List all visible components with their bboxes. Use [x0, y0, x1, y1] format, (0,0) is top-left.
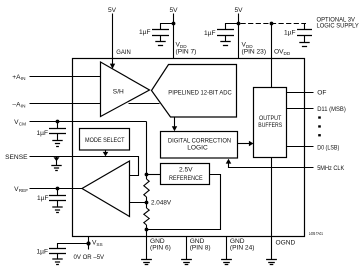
wire D11 output: [287, 108, 314, 110]
wire GND pin6 (resistor chain continues): [146, 237, 148, 260]
svg-text:5V: 5V: [234, 7, 243, 14]
label GND (PIN 8): [190, 238, 211, 251]
wire C2 to VDD23: [226, 24, 239, 30]
svg-text:1405 TA01: 1405 TA01: [309, 231, 324, 236]
wire resistor chain from VCM: [146, 122, 148, 180]
wire VDD pin7 supply: [173, 14, 175, 59]
main IC block outline: [73, 59, 305, 237]
block 2.5V REFERENCE: [161, 164, 210, 185]
label GAIN: [116, 49, 131, 56]
ground (C2): [220, 42, 230, 46]
svg-text:OF: OF: [317, 90, 326, 97]
label OPTIONAL 3V LOGIC SUPPLY: [317, 17, 360, 30]
node VSS junction: [86, 241, 90, 245]
svg-text:D0 (LSB): D0 (LSB): [317, 144, 339, 151]
wire VSS pin: [88, 237, 90, 250]
label VSS: [92, 239, 103, 246]
label GND (PIN 6): [150, 238, 171, 251]
node 2.048V tap: [145, 201, 149, 205]
svg-text:IN: IN: [21, 76, 26, 81]
svg-text:(PIN 6): (PIN 6): [150, 244, 171, 251]
svg-text:–A: –A: [12, 102, 21, 109]
svg-text:LOGIC SUPPLY: LOGIC SUPPLY: [317, 23, 360, 30]
svg-text:(PIN 24): (PIN 24): [230, 244, 255, 251]
label VREF: [14, 186, 28, 193]
label VDD (PIN 23): [242, 41, 267, 55]
svg-text:5MHz CLK: 5MHz CLK: [317, 165, 344, 172]
svg-text:(PIN 8): (PIN 8): [190, 244, 211, 251]
resistor R2: [144, 208, 149, 237]
node resistor top junction: [145, 173, 149, 177]
wire C6 to VSS: [58, 244, 89, 249]
label 5V (gain): [108, 7, 117, 14]
wire mode select to sense line with arrow: [103, 150, 109, 156]
ground (C1): [155, 42, 165, 46]
ground (C3): [299, 43, 309, 47]
wire SENSE input: [30, 157, 139, 176]
label +AIN: [12, 74, 25, 81]
svg-text:1µF: 1µF: [37, 130, 49, 137]
label VDD (PIN 7): [176, 41, 197, 55]
label OGND: [276, 239, 296, 246]
wire 5V gain supply: [110, 14, 115, 69]
label 1µF (C2): [204, 30, 216, 37]
label 1µF (C5): [37, 195, 49, 202]
ground (C6): [52, 259, 62, 265]
ground (C4): [52, 141, 62, 147]
wire reference left to resistor top: [147, 174, 161, 176]
wire dashed optional 3V supply: [241, 23, 307, 25]
label OVDD: [274, 49, 291, 56]
svg-text:+A: +A: [12, 74, 21, 81]
wire +AIN input: [30, 76, 101, 78]
svg-text:D11 (MSB): D11 (MSB): [317, 106, 346, 113]
capacitor C3 1µF optional: [297, 24, 312, 43]
node VCM-C4 junction: [56, 120, 60, 124]
svg-text:SENSE: SENSE: [5, 154, 28, 161]
svg-text:REF: REF: [19, 188, 29, 193]
ground (SENSE tie): [51, 157, 61, 171]
svg-text:LOGIC: LOGIC: [187, 144, 208, 151]
wire D0 output: [287, 146, 314, 148]
ground (GND pin24): [221, 260, 232, 265]
wire CLK input to correction logic: [226, 159, 314, 168]
label OF: [317, 90, 326, 97]
block DIGITAL CORRECTION LOGIC: [161, 132, 238, 159]
wire GND pin8: [186, 237, 188, 260]
label VCM: [14, 119, 26, 126]
wire OF output: [287, 92, 314, 94]
svg-text:S/H: S/H: [113, 88, 124, 95]
block PIPELINED 12-BIT ADC: [152, 65, 237, 118]
wire C1 to VDD7: [161, 24, 174, 30]
node resistor bottom junction: [145, 228, 149, 232]
capacitor C5 1µF: [49, 189, 66, 208]
label 0V OR -5V: [74, 254, 105, 261]
label GND (PIN 24): [230, 238, 255, 251]
svg-text:CM: CM: [19, 121, 26, 126]
node OVDD dashed junction: [270, 22, 274, 26]
wire ADC to correction logic with arrow: [172, 117, 177, 131]
svg-text:1µF: 1µF: [284, 30, 296, 37]
wire OVDD rail into output buffers: [271, 24, 273, 88]
svg-text:MODE SELECT: MODE SELECT: [85, 137, 125, 144]
ground (OGND): [266, 260, 277, 265]
wire S/H to ADC lower link: [129, 103, 160, 105]
wire reference right down to resistor bottom: [147, 175, 221, 230]
svg-text:0V OR –5V: 0V OR –5V: [74, 254, 105, 261]
label -AIN: [12, 102, 25, 109]
wire GND pin24: [226, 237, 228, 260]
capacitor C4 1µF: [49, 122, 66, 141]
label 1µF (C3): [284, 30, 296, 37]
wire -AIN input: [30, 103, 101, 105]
wire VREF to op-amp output: [30, 188, 83, 190]
node VDD23-C2 junction: [237, 22, 241, 26]
label 1405 TA01: [309, 231, 324, 236]
label 1µF (C1): [139, 29, 151, 36]
ground (GND pin8): [181, 260, 192, 265]
ground (GND pin6): [141, 260, 152, 265]
node VREF-C5 junction: [56, 187, 60, 191]
svg-text:PIPELINED 12-BIT ADC: PIPELINED 12-BIT ADC: [168, 90, 232, 97]
node VDD7-C1 junction: [172, 22, 176, 26]
svg-text:IN: IN: [21, 104, 26, 109]
label SENSE: [5, 154, 28, 161]
svg-text:(PIN 7): (PIN 7): [176, 48, 197, 55]
wire OGND from output buffers: [271, 158, 273, 260]
capacitor C2 1µF: [217, 30, 234, 42]
svg-text:2.048V: 2.048V: [151, 200, 172, 207]
svg-text:1µF: 1µF: [37, 195, 49, 202]
ground (C5): [52, 207, 62, 213]
wire VCM input to resistor chain: [30, 121, 147, 123]
label 5V (VDD pin7): [169, 7, 178, 14]
label 2.048V: [151, 200, 172, 207]
svg-text:OGND: OGND: [276, 239, 296, 246]
svg-text:1µF: 1µF: [37, 248, 49, 255]
label D11 (MSB): [317, 106, 346, 113]
svg-text:DIGITAL CORRECTION: DIGITAL CORRECTION: [168, 137, 232, 144]
capacitor C1 1µF: [152, 30, 169, 42]
svg-text:1µF: 1µF: [204, 30, 216, 37]
label 5MHz CLK: [317, 165, 344, 172]
svg-text:GAIN: GAIN: [116, 49, 131, 56]
node bit ellipsis dots: [318, 116, 321, 136]
block OUTPUT BUFFERS: [254, 88, 287, 158]
label 1µF (C4): [37, 130, 49, 137]
block MODE SELECT: [80, 129, 130, 151]
wire VDD pin23 supply: [238, 14, 240, 59]
svg-text:2.5V: 2.5V: [179, 166, 193, 173]
svg-text:REFERENCE: REFERENCE: [169, 175, 203, 182]
svg-text:5V: 5V: [108, 7, 117, 14]
capacitor C6 1µF: [49, 249, 66, 260]
wire correction logic to output buffers with arrow: [238, 141, 254, 146]
resistor R1: [144, 179, 149, 208]
svg-text:(PIN 23): (PIN 23): [242, 48, 267, 55]
svg-text:BUFFERS: BUFFERS: [258, 122, 282, 129]
amplifier S/H: [101, 62, 150, 117]
label 1µF (C6): [37, 248, 49, 255]
svg-text:OUTPUT: OUTPUT: [259, 115, 281, 122]
label D0 (LSB): [317, 144, 339, 151]
label 5V (VDD pin23): [234, 7, 243, 14]
svg-text:5V: 5V: [169, 7, 178, 14]
svg-text:1µF: 1µF: [139, 29, 151, 36]
wire resistor tap to op-amp input: [130, 202, 147, 204]
op-amp reference buffer: [82, 161, 130, 217]
